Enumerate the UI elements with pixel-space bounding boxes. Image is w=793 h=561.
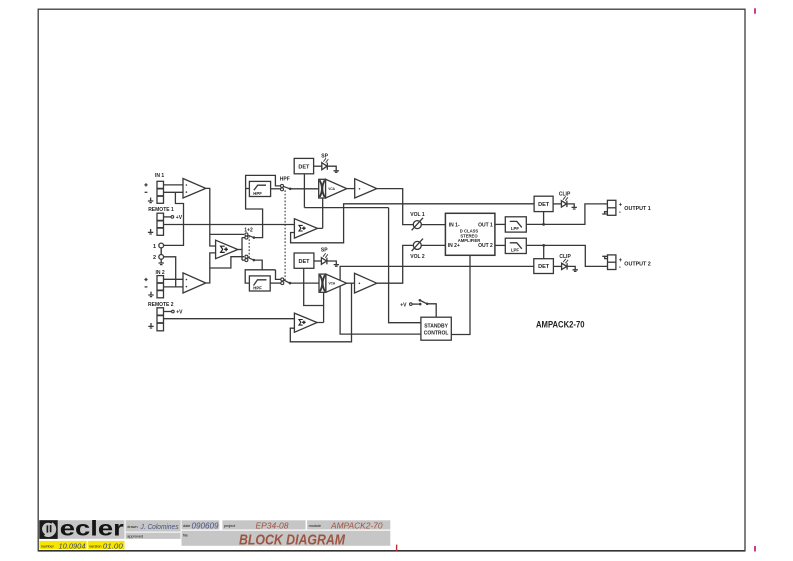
svg-text:VOL 2: VOL 2 [410,254,425,260]
svg-text:HPF: HPF [280,176,290,182]
svg-text:BLOCK DIAGRAM: BLOCK DIAGRAM [239,531,345,548]
svg-text:HPF: HPF [253,285,262,290]
svg-text:DET: DET [298,164,310,170]
svg-text:OUT 1: OUT 1 [478,223,493,229]
svg-text:SP: SP [321,248,328,254]
svg-text:OUTPUT 1: OUTPUT 1 [624,206,651,212]
svg-text:1: 1 [153,244,156,250]
svg-text:IN 2+: IN 2+ [448,243,460,249]
svg-text:SP: SP [321,153,328,159]
svg-text:CLIP: CLIP [559,254,571,260]
svg-text:1+2: 1+2 [244,227,253,233]
svg-text:approved: approved [127,535,143,539]
svg-text:-: - [619,265,621,271]
svg-text:IN 1: IN 1 [155,173,164,179]
svg-text:IN 1-: IN 1- [449,223,460,229]
svg-text:DET: DET [538,202,550,208]
svg-text:number: number [41,545,55,549]
svg-text:DET: DET [299,259,311,265]
svg-text:+V: +V [176,310,183,316]
svg-text:drawn: drawn [127,525,137,529]
svg-text:project: project [224,524,236,528]
svg-text:IN 2: IN 2 [156,270,165,276]
svg-text:01.00: 01.00 [103,543,123,550]
svg-text:+V: +V [176,215,183,221]
svg-text:2: 2 [153,255,156,261]
svg-text:AMPACK2-70: AMPACK2-70 [330,521,383,530]
svg-text:date: date [183,524,190,528]
svg-text:LPF: LPF [511,248,519,253]
svg-text:version: version [89,545,101,549]
svg-text:OUTPUT 2: OUTPUT 2 [624,261,651,267]
svg-text:-: - [619,210,621,216]
svg-text:HPF: HPF [253,191,262,196]
svg-text:OUT 2: OUT 2 [478,243,493,249]
svg-text:file: file [183,534,188,538]
svg-text:10.0904: 10.0904 [59,543,86,550]
svg-text:+V: +V [400,302,407,308]
svg-text:+: + [619,203,623,209]
svg-text:REMOTE 1: REMOTE 1 [148,207,174,213]
svg-text:VCA: VCA [328,187,335,191]
svg-text:EP34-08: EP34-08 [256,521,290,530]
svg-text:LPF: LPF [511,226,519,231]
svg-text:ecler: ecler [60,518,124,541]
svg-text:CLIP: CLIP [559,191,571,197]
svg-text:VCA: VCA [329,282,336,286]
svg-text:090609: 090609 [192,521,220,530]
svg-text:J. Colomines: J. Colomines [140,524,179,531]
svg-text:CONTROL: CONTROL [424,331,449,337]
svg-text:module: module [309,524,321,528]
svg-text:STANDBY: STANDBY [424,324,448,330]
svg-text:+: + [619,258,623,264]
svg-text:VOL 1: VOL 1 [410,212,425,218]
svg-text:AMPLIFIER: AMPLIFIER [458,238,481,243]
svg-text:REMOTE 2: REMOTE 2 [148,302,174,308]
svg-text:AMPACK2-70: AMPACK2-70 [536,319,585,330]
svg-text:DET: DET [538,264,550,270]
